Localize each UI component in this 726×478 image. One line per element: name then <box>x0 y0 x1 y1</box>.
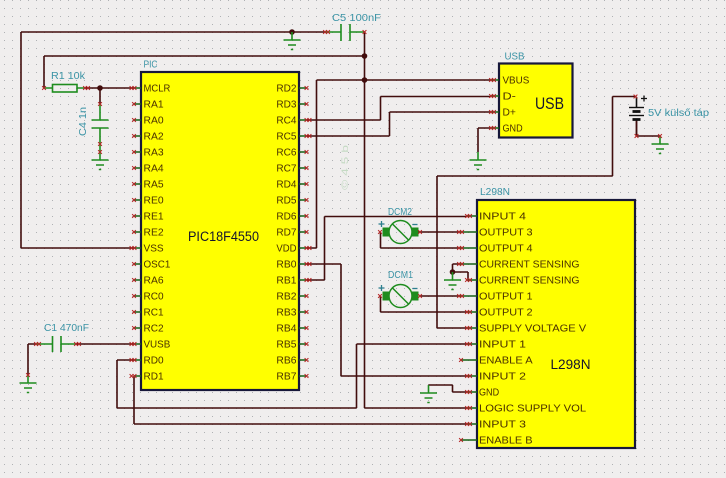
capacitor C4 1n <box>92 102 109 154</box>
wire DCM1 right to OUTPUT 1 <box>421 295 460 297</box>
svg-text:CURRENT SENSING: CURRENT SENSING <box>479 276 580 287</box>
svg-text:USB: USB <box>535 94 564 113</box>
svg-text:ENABLE B: ENABLE B <box>479 436 533 447</box>
svg-text:RC6: RC6 <box>276 148 296 159</box>
L298N pin stubs <box>459 216 477 440</box>
PIC18F4550 value label <box>188 229 259 244</box>
svg-text:RD4: RD4 <box>276 180 296 191</box>
ground L298N GND pin <box>420 385 437 403</box>
svg-text:MCLR: MCLR <box>144 84 171 95</box>
svg-text:RB5: RB5 <box>276 340 296 351</box>
PIC pin end markers <box>130 86 312 378</box>
svg-text:RE0: RE0 <box>144 196 164 207</box>
L298N value text <box>551 356 591 372</box>
USB label <box>505 52 525 63</box>
svg-text:RA3: RA3 <box>144 148 164 159</box>
L298N U2 body <box>477 200 635 448</box>
wire VDD net from R1 to C5 column <box>44 56 365 88</box>
svg-text:RB1: RB1 <box>276 276 296 287</box>
svg-text:D+: D+ <box>503 108 516 119</box>
svg-text:DCM2: DCM2 <box>388 207 412 218</box>
node top rail ground junction <box>289 29 295 35</box>
svg-text:PIC18F4550: PIC18F4550 <box>188 229 259 244</box>
PIC pin stubs <box>134 88 306 376</box>
battery BT1 5V <box>629 95 662 138</box>
svg-text:VSS: VSS <box>144 244 164 255</box>
svg-text:OUTPUT 3: OUTPUT 3 <box>479 228 533 239</box>
svg-text:RB4: RB4 <box>276 324 296 335</box>
capacitor C5 100nF <box>323 24 366 41</box>
svg-text:RD1: RD1 <box>144 372 164 383</box>
node VDD junction A <box>362 53 368 59</box>
svg-text:RD5: RD5 <box>276 196 296 207</box>
svg-text:RC4: RC4 <box>276 116 296 127</box>
ground battery negative <box>652 136 669 154</box>
svg-text:RD7: RD7 <box>276 228 296 239</box>
PIC U1 PIC18F4550 body <box>141 72 299 390</box>
PIC label <box>144 60 158 71</box>
C5 label <box>332 13 381 24</box>
wire USB GND to ground <box>478 128 491 152</box>
wire +5V vertical to LOGIC SUPPLY VOL <box>365 32 468 408</box>
ground current sensing <box>444 272 461 290</box>
svg-text:VDD: VDD <box>276 244 296 255</box>
svg-text:RD6: RD6 <box>276 212 296 223</box>
svg-text:C1 470nF: C1 470nF <box>44 323 89 334</box>
svg-text:GND: GND <box>503 124 523 135</box>
svg-text:RD3: RD3 <box>276 100 296 111</box>
node MCLR/R1/C4 junction <box>97 85 103 91</box>
svg-text:OSC1: OSC1 <box>144 260 171 271</box>
svg-text:RD2: RD2 <box>276 84 296 95</box>
svg-text:RB2: RB2 <box>276 292 296 303</box>
L298N pin end markers <box>457 214 472 442</box>
svg-text:LOGIC SUPPLY VOL: LOGIC SUPPLY VOL <box>479 404 587 415</box>
svg-text:RC5: RC5 <box>276 132 296 143</box>
svg-text:RC1: RC1 <box>144 308 164 319</box>
USB pin stubs <box>491 80 499 128</box>
svg-text:INPUT 4: INPUT 4 <box>479 212 526 223</box>
wire DCM1 left to OUTPUT 2 <box>381 296 468 312</box>
svg-text:SUPPLY VOLTAGE V: SUPPLY VOLTAGE V <box>479 324 586 335</box>
resistor R1 10k <box>42 85 90 93</box>
wire RC4 to D- <box>307 97 492 121</box>
svg-text:© 4 5 b: © 4 5 b <box>340 145 350 190</box>
USB pin name labels <box>503 76 530 135</box>
wire GND rail: top, left side, to VSS <box>21 32 325 248</box>
svg-text:VUSB: VUSB <box>144 340 171 351</box>
ground below C1 <box>20 375 37 393</box>
PIC pin name labels <box>144 84 297 383</box>
L298N pin name labels <box>479 212 587 447</box>
svg-text:RD0: RD0 <box>144 356 164 367</box>
svg-text:L298N: L298N <box>551 356 591 372</box>
wire L298N GND to ground <box>429 385 468 392</box>
USB pin end markers <box>489 78 496 130</box>
motor DCM1 <box>378 285 422 308</box>
battery label <box>648 108 709 119</box>
wire RB1 to INPUT 4 <box>307 217 468 281</box>
ground below USB GND <box>470 152 487 170</box>
L298N label <box>480 187 510 198</box>
svg-text:RC0: RC0 <box>144 292 164 303</box>
wire RB0 to INPUT 2 <box>307 264 468 376</box>
svg-text:USB: USB <box>505 52 525 63</box>
svg-text:GND: GND <box>479 388 499 399</box>
wire battery + to SUPPLY VOLTAGE V <box>437 97 636 329</box>
svg-text:RC2: RC2 <box>144 324 164 335</box>
node current sensing ground junction <box>450 269 456 275</box>
svg-text:RB0: RB0 <box>276 260 296 271</box>
svg-text:INPUT 2: INPUT 2 <box>479 372 526 383</box>
wire RD0 to INPUT 1 <box>117 344 467 408</box>
svg-text:C5 100nF: C5 100nF <box>332 13 381 24</box>
USB value text <box>535 94 564 113</box>
svg-text:ENABLE A: ENABLE A <box>479 356 533 367</box>
USB J1 body <box>499 64 573 138</box>
svg-text:VBUS: VBUS <box>503 76 530 87</box>
svg-text:RA1: RA1 <box>144 100 164 111</box>
wire battery - to ground <box>637 119 661 136</box>
node VDD junction B <box>362 77 368 83</box>
ground below C4 <box>92 152 109 170</box>
wire C1 to VUSB and ground <box>28 344 134 375</box>
svg-text:C4 1n: C4 1n <box>78 107 89 136</box>
wire RD1 to INPUT 3 <box>134 376 467 424</box>
svg-text:RB3: RB3 <box>276 308 296 319</box>
wire RC5 to D+ <box>307 112 492 136</box>
svg-text:INPUT 1: INPUT 1 <box>479 340 526 351</box>
svg-text:INPUT 3: INPUT 3 <box>479 420 526 431</box>
DCM2 label <box>388 207 412 218</box>
wire DCM2 left to OUTPUT 4 <box>381 232 460 248</box>
wire MCLR net with C4 tap <box>85 88 134 104</box>
svg-text:D-: D- <box>503 92 516 103</box>
svg-text:RB7: RB7 <box>276 372 296 383</box>
C1 label <box>44 323 89 334</box>
ground top rail <box>284 32 301 50</box>
svg-text:RB6: RB6 <box>276 356 296 367</box>
svg-text:PIC: PIC <box>144 60 158 71</box>
svg-text:RA4: RA4 <box>144 164 164 175</box>
motor DCM2 <box>378 221 422 244</box>
svg-text:CURRENT SENSING: CURRENT SENSING <box>479 260 580 271</box>
svg-text:OUTPUT 1: OUTPUT 1 <box>479 292 533 303</box>
svg-text:RC7: RC7 <box>276 164 296 175</box>
watermark <box>340 145 350 190</box>
svg-text:R1 10k: R1 10k <box>51 71 86 82</box>
wire DCM2 right to OUTPUT 3 <box>419 231 460 233</box>
svg-text:RE2: RE2 <box>144 228 164 239</box>
svg-text:RE1: RE1 <box>144 212 164 223</box>
wire VBUS to VDD pin <box>307 80 492 248</box>
svg-text:OUTPUT 4: OUTPUT 4 <box>479 244 533 255</box>
C4 label <box>78 107 89 136</box>
wire CURRENT SENSING pins to ground <box>453 264 469 280</box>
svg-text:RA6: RA6 <box>144 276 164 287</box>
svg-text:DCM1: DCM1 <box>388 270 413 281</box>
capacitor C1 470nF <box>26 336 81 377</box>
svg-text:L298N: L298N <box>480 187 510 198</box>
R1 label <box>51 71 86 82</box>
svg-text:OUTPUT 2: OUTPUT 2 <box>479 308 533 319</box>
DCM1 label <box>388 270 413 281</box>
svg-text:RA2: RA2 <box>144 132 164 143</box>
svg-text:RA5: RA5 <box>144 180 164 191</box>
svg-text:5V külső táp: 5V külső táp <box>648 108 709 119</box>
svg-text:RA0: RA0 <box>144 116 164 127</box>
